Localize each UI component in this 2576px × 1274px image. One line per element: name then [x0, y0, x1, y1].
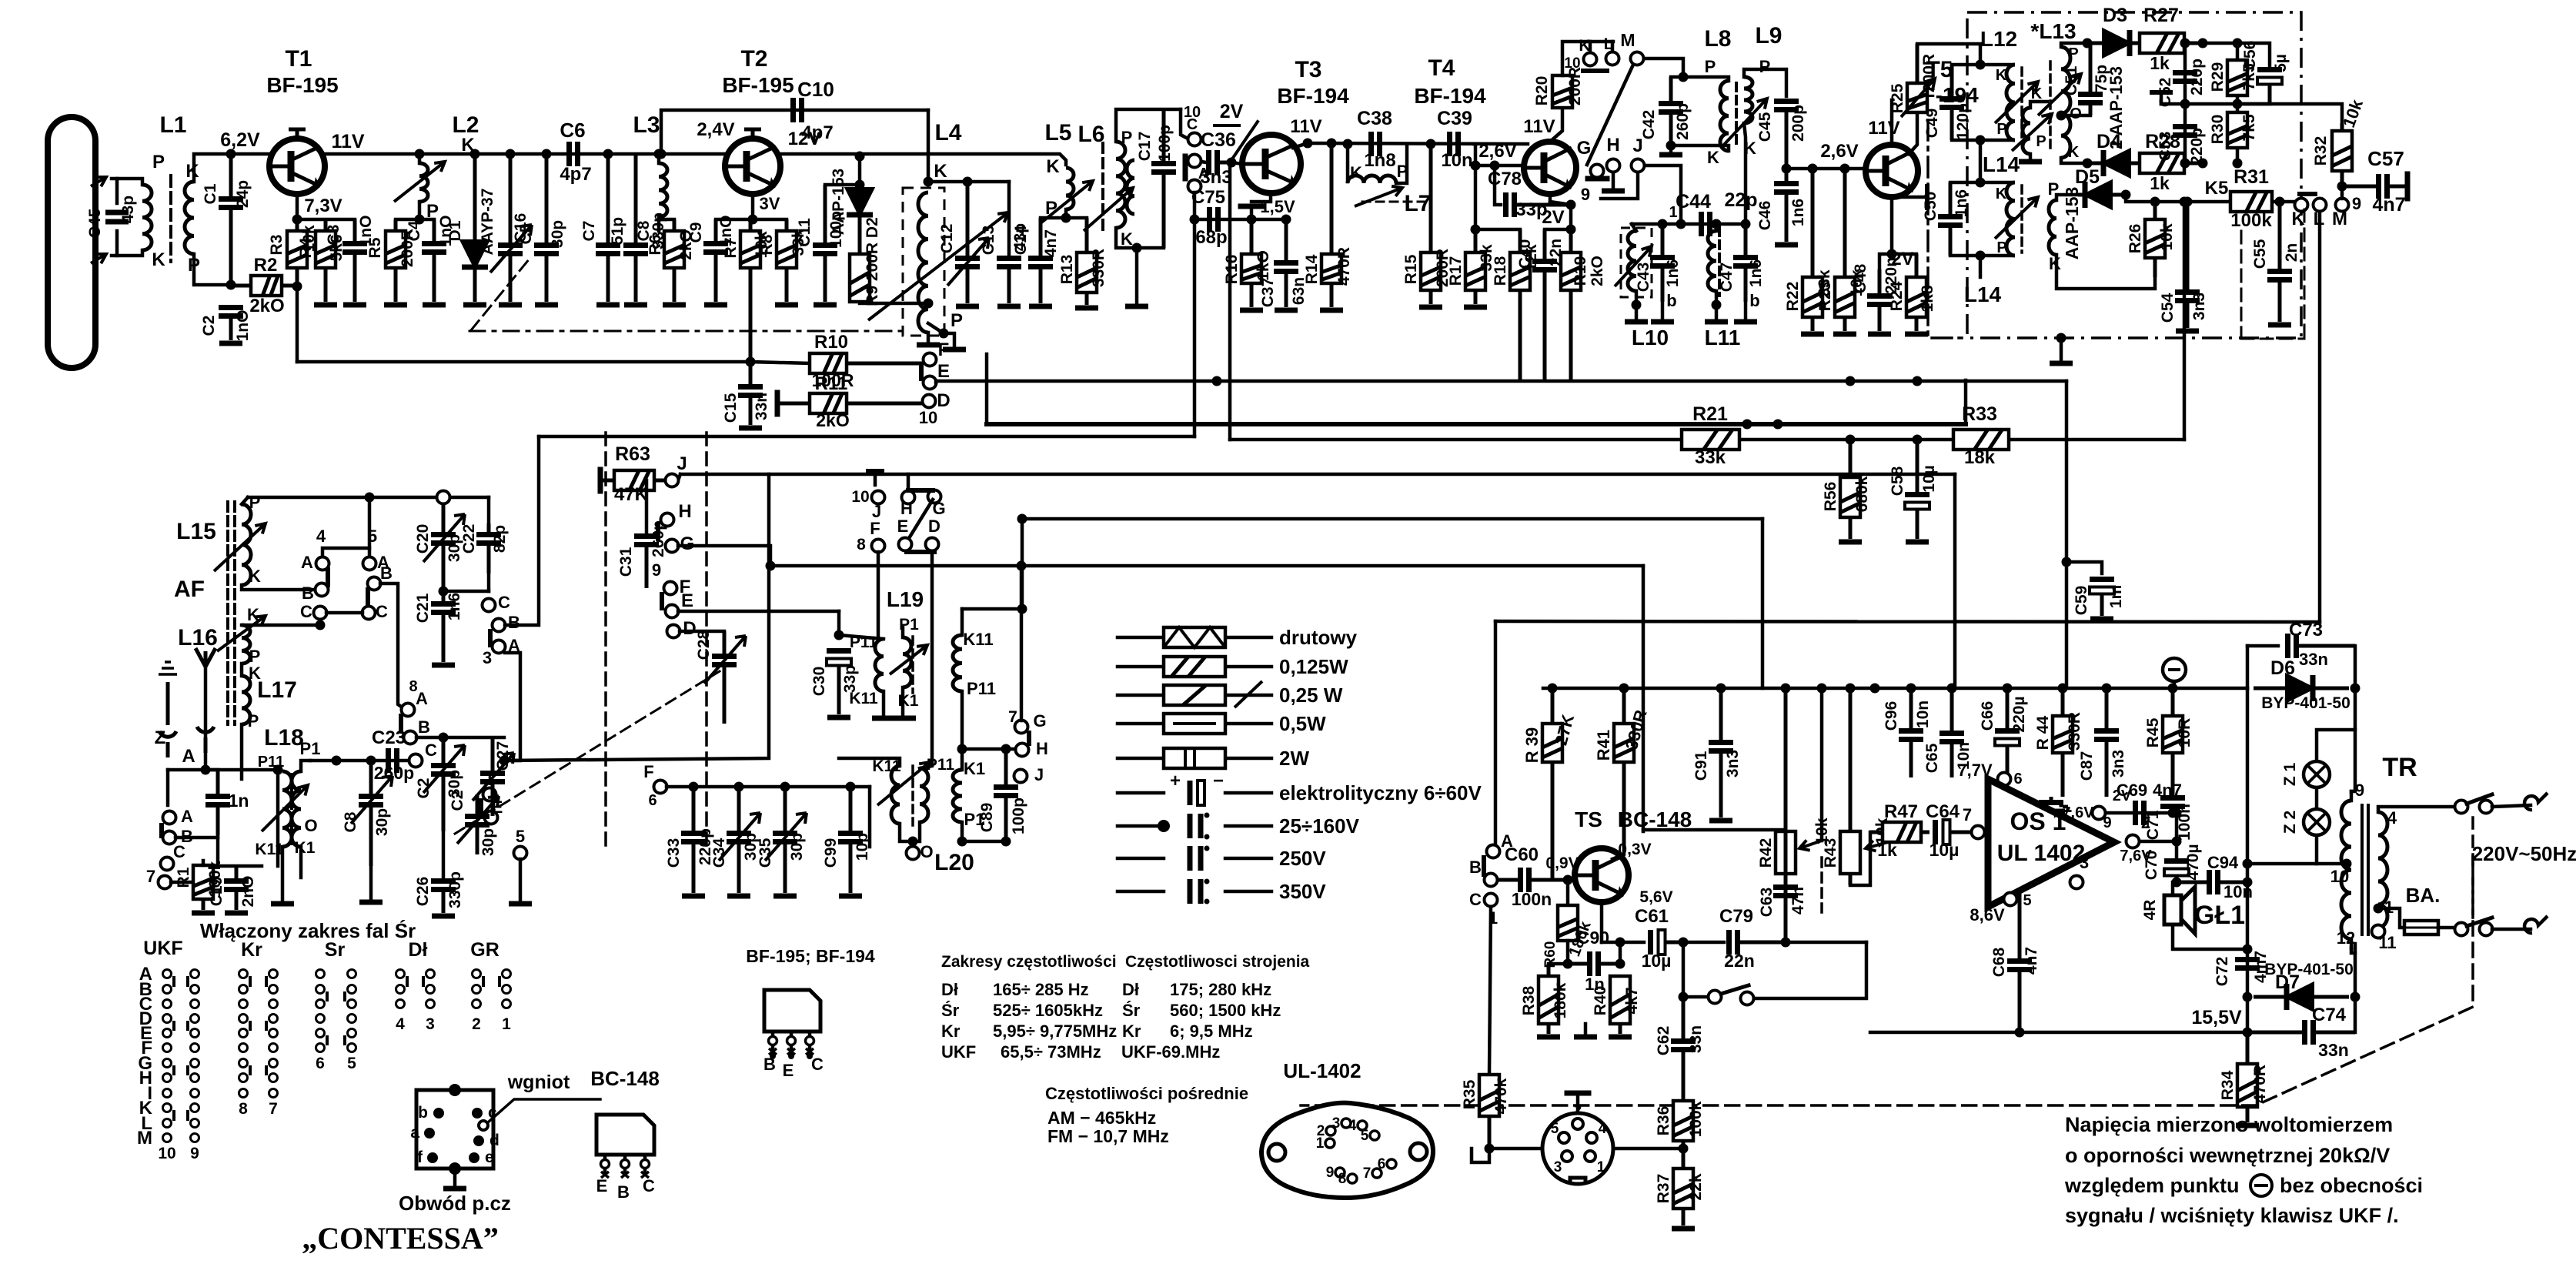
ground	[432, 663, 455, 668]
terminal C	[1188, 133, 1201, 146]
capacitor C75	[1207, 207, 1212, 232]
Sr switch link	[343, 991, 346, 1001]
ground	[739, 426, 762, 431]
svg-text:4p7: 4p7	[560, 164, 591, 185]
L7 dashed	[1362, 201, 1424, 203]
wire J jog	[678, 474, 680, 480]
inductor L19 primary	[875, 639, 884, 691]
svg-text:10n: 10n	[1914, 701, 1932, 728]
junction D5 out	[2121, 190, 2131, 200]
wire C51 to O	[2061, 114, 2090, 118]
wire L18 left	[276, 770, 280, 866]
wire C24-C26	[442, 831, 446, 878]
wire B to C36	[1201, 162, 1206, 162]
ground	[463, 303, 486, 308]
svg-text:3V: 3V	[760, 194, 780, 213]
wire L19 left gnd lead	[882, 691, 886, 714]
svg-text:5,95÷ 9,775MHz: 5,95÷ 9,775MHz	[993, 1022, 1117, 1041]
capacitor C38	[1368, 132, 1374, 156]
svg-text:C33: C33	[665, 838, 683, 868]
E bar top	[919, 366, 924, 379]
antenna coupling arrow P	[91, 177, 106, 186]
svg-text:R63: R63	[615, 443, 650, 465]
svg-text:220µ: 220µ	[2010, 696, 2028, 732]
resistor R7	[749, 219, 753, 231]
wire tank link	[1979, 140, 1983, 182]
wire B3 cross line	[539, 435, 1194, 439]
svg-text:250V: 250V	[1279, 847, 1326, 870]
wire L11 bottom	[1715, 291, 1719, 305]
wire P node	[1041, 216, 1087, 220]
terminal E mid2	[485, 811, 498, 824]
switch arm G-E	[907, 500, 933, 542]
svg-text:C2: C2	[200, 316, 218, 336]
junction D2/C11	[855, 180, 865, 190]
wire AGC down from T3	[1228, 166, 1232, 440]
junction R17	[1471, 225, 1481, 235]
junction R56	[1846, 435, 1856, 445]
wire speaker bottom	[2173, 925, 2247, 949]
junction C44 right	[1741, 219, 1751, 229]
BF leg	[808, 1032, 812, 1056]
svg-text:2kO: 2kO	[1589, 256, 1606, 286]
svg-text:1k: 1k	[2150, 173, 2170, 193]
wire C10 to L4	[927, 110, 931, 182]
Dl switch contact R2	[426, 1000, 435, 1008]
Dl switch contact R0	[426, 970, 435, 978]
svg-text:C: C	[643, 1176, 655, 1195]
resistor R20	[1552, 75, 1572, 108]
junction C89 top	[1001, 744, 1011, 754]
svg-text:C30: C30	[810, 667, 828, 697]
wire L8 K down	[1671, 145, 1729, 151]
junction L13 O tap	[2056, 111, 2066, 121]
capacitor C11	[824, 185, 827, 246]
diode D3	[2087, 42, 2103, 45]
svg-text:1n8: 1n8	[1364, 150, 1395, 171]
wire mid lead	[961, 691, 964, 770]
junction L4 tap	[924, 299, 934, 309]
svg-text:UL-1402: UL-1402	[1283, 1059, 1361, 1082]
Sr switch contact L5	[316, 1044, 325, 1052]
ground	[1801, 332, 1824, 337]
wire L15 top lead	[242, 497, 248, 504]
svg-text:1n6: 1n6	[1789, 199, 1807, 226]
resistor R40	[1619, 1024, 1622, 1034]
ground	[814, 303, 837, 308]
svg-text:P: P	[2036, 133, 2046, 150]
wire B down	[216, 838, 220, 866]
wire C-C link	[326, 611, 363, 615]
Kr switch contact R0	[269, 970, 278, 978]
resistor R27	[2184, 42, 2203, 45]
Sr switch link	[343, 1035, 346, 1045]
Dl switch contact R1	[426, 985, 435, 994]
UKF switch contact L3	[163, 1015, 172, 1023]
svg-text:4k7: 4k7	[1623, 987, 1641, 1014]
inductor L13 coupling	[2023, 108, 2030, 154]
svg-text:BC-148: BC-148	[1618, 808, 1692, 831]
junction L11	[1712, 219, 1722, 229]
wire T6 emitter down	[1600, 902, 1604, 942]
terminal B	[1188, 155, 1201, 168]
wire B3 up right	[505, 436, 539, 625]
legend lead r	[1225, 694, 1271, 697]
terminal H mid	[661, 513, 674, 527]
transistor T5	[1866, 145, 1918, 197]
capacitor C23	[386, 748, 391, 773]
L20 core	[911, 766, 914, 825]
svg-text:525÷ 1605kHz: 525÷ 1605kHz	[993, 1001, 1103, 1020]
wire C43 gnd	[1661, 302, 1665, 319]
UL-1402 pin 8	[1348, 1174, 1357, 1183]
terminal D top	[923, 395, 936, 408]
ground	[2268, 323, 2291, 328]
resistor R3	[296, 219, 299, 231]
terminal G 7	[1015, 721, 1028, 734]
wire pin2 out	[2140, 840, 2177, 844]
svg-text:C34: C34	[710, 838, 728, 868]
wire right column	[2246, 688, 2250, 1032]
wire L6 top	[1116, 109, 1181, 142]
UKF switch contact L9	[163, 1104, 172, 1112]
terminal F top	[924, 353, 937, 366]
svg-text:H: H	[1606, 135, 1619, 155]
terminal pin2	[2127, 835, 2140, 848]
junction 2V node	[1566, 225, 1576, 235]
wire O stub	[911, 841, 915, 847]
svg-text:F: F	[870, 519, 880, 538]
A-B link bar	[326, 570, 330, 585]
junction bus a	[1742, 420, 1752, 430]
svg-text:3: 3	[426, 1015, 435, 1033]
wire to L1 primary bottom	[117, 250, 142, 256]
terminal O	[907, 847, 920, 860]
svg-text:J: J	[677, 453, 687, 474]
svg-text:7k5: 7k5	[2240, 114, 2258, 141]
svg-text:33k: 33k	[1695, 447, 1726, 468]
ground	[1574, 1035, 1597, 1040]
svg-text:100k: 100k	[1687, 1101, 1705, 1137]
svg-text:1n6: 1n6	[446, 593, 463, 620]
L6 adjust arrow	[1084, 188, 1133, 231]
resistor R10	[847, 362, 923, 366]
svg-text:C43: C43	[1635, 262, 1652, 293]
resistor R60 180k	[1558, 905, 1578, 941]
junction C75 left	[1190, 215, 1200, 225]
L18 core	[290, 774, 293, 844]
svg-text:4n7: 4n7	[2372, 194, 2405, 216]
svg-text:C73: C73	[2289, 620, 2323, 640]
ground	[917, 343, 940, 348]
svg-text:P: P	[1397, 162, 1408, 181]
junction T5 emitter	[1887, 249, 1897, 259]
switch mains a	[2455, 923, 2468, 936]
terminal G	[1591, 165, 1604, 178]
svg-text:C72: C72	[2213, 957, 2231, 987]
ground	[1609, 1035, 1632, 1040]
ground	[1868, 332, 1891, 337]
wire speaker top lead	[2171, 882, 2175, 895]
svg-text:M: M	[1620, 30, 1635, 50]
svg-text:D: D	[928, 517, 941, 536]
svg-text:4: 4	[1348, 1118, 1357, 1134]
svg-text:10µ: 10µ	[1920, 465, 1938, 492]
ground	[2050, 361, 2073, 366]
ground	[682, 894, 705, 899]
junction D1 rail	[470, 149, 480, 159]
svg-text:Włączony zakres fal Śr: Włączony zakres fal Śr	[200, 919, 416, 942]
inductor L4	[918, 192, 928, 333]
wire C81 gnd lead	[369, 866, 373, 899]
terminal L	[1606, 52, 1619, 65]
svg-text:T1: T1	[285, 46, 312, 72]
capacitor C87	[2105, 688, 2109, 731]
ground	[1833, 332, 1856, 337]
capacitor C50	[1949, 182, 1953, 217]
Kr switch contact R8	[269, 1089, 278, 1098]
F-E bar2	[479, 801, 483, 814]
legend 350V symbol	[1190, 879, 1201, 904]
dashed C55 box h	[2241, 338, 2304, 340]
svg-text:AF: AF	[174, 577, 205, 602]
junction C58 top	[1913, 376, 1923, 386]
svg-text:260p: 260p	[1674, 103, 1692, 140]
legend lead l	[1118, 824, 1164, 828]
legend lead r	[1225, 636, 1271, 640]
svg-text:10R: 10R	[2176, 718, 2193, 748]
inductor L6 primary	[1116, 142, 1125, 228]
junction L11 gnd	[1712, 300, 1722, 310]
wire base col down	[1474, 166, 1478, 229]
svg-text:R31: R31	[2234, 166, 2269, 188]
junction bus b	[1773, 420, 1783, 430]
svg-text:BYP-401-50: BYP-401-50	[2264, 961, 2354, 978]
svg-text:12V: 12V	[788, 129, 821, 149]
svg-text:22p: 22p	[1724, 189, 1757, 211]
junction H-line	[1017, 561, 1027, 571]
ground	[1705, 319, 1728, 325]
UL-1402 pin 9	[1335, 1168, 1345, 1177]
svg-text:drutowy: drutowy	[1279, 626, 1358, 649]
2V underline	[1214, 124, 1239, 127]
wire 4-5 link	[322, 548, 369, 557]
svg-text:0,125W: 0,125W	[1279, 655, 1348, 678]
junction C63	[1781, 938, 1791, 948]
wire coupling bottom	[2029, 154, 2033, 159]
svg-text:11V: 11V	[1868, 118, 1899, 139]
svg-text:220p: 220p	[2188, 59, 2206, 95]
wire T4 emitter to node	[1550, 202, 1571, 205]
svg-text:3n3: 3n3	[2190, 293, 2208, 320]
wire L15 K line	[242, 585, 314, 590]
lamp Z2	[2304, 809, 2330, 835]
ground	[499, 303, 522, 308]
wire L2 bottom	[418, 202, 422, 219]
ground	[359, 900, 383, 905]
junction amp rail	[1947, 684, 1957, 694]
svg-text:C47: C47	[1718, 262, 1736, 293]
svg-text:47n: 47n	[1789, 887, 1807, 915]
ground	[1275, 308, 1298, 313]
capacitor C45	[1785, 110, 1789, 169]
inductor L17	[242, 676, 250, 724]
svg-text:C: C	[1187, 116, 1198, 133]
svg-text:C15: C15	[722, 393, 740, 423]
svg-text:Obwód p.cz: Obwód p.cz	[399, 1192, 511, 1215]
pin a	[424, 1128, 435, 1139]
wire C39 to T4 base	[1474, 144, 1522, 166]
capacitor C47	[1744, 224, 1748, 258]
junction DIN right	[1679, 1144, 1689, 1154]
switch mains d	[2480, 801, 2493, 814]
junction C35	[780, 782, 790, 792]
T5 emitter bar	[1925, 186, 1929, 208]
svg-text:C89: C89	[978, 803, 996, 833]
wire M switch diagonal	[1587, 65, 1633, 165]
svg-text:8: 8	[239, 1100, 248, 1118]
svg-text:C22: C22	[460, 524, 478, 554]
junction H row left	[957, 744, 967, 754]
UKF switch contact R3	[191, 1015, 199, 1023]
inductor L12	[2006, 65, 2015, 140]
svg-text:BYP-401-50: BYP-401-50	[2261, 694, 2350, 712]
G bar	[1588, 176, 1607, 182]
svg-text:L20: L20	[934, 850, 974, 875]
wire B8 right	[416, 736, 443, 740]
wire AF feedback line	[1495, 621, 2320, 622]
capacitor C66	[2006, 688, 2010, 731]
svg-text:K: K	[1350, 163, 1362, 182]
junction amp rail	[1781, 684, 1791, 694]
ground	[624, 303, 647, 308]
wire C62 col top	[1682, 942, 1686, 997]
junction R40	[1615, 959, 1625, 969]
svg-text:R35: R35	[1461, 1079, 1478, 1109]
Sr switch contact L3	[316, 1015, 325, 1023]
ground	[997, 304, 1021, 309]
switch arm a	[2467, 918, 2492, 926]
wire P to D5	[2056, 195, 2078, 200]
wire L19 right gnd lead	[901, 687, 905, 714]
svg-text:10: 10	[158, 1145, 175, 1162]
svg-text:BF-194: BF-194	[1414, 84, 1486, 108]
ground	[1602, 189, 1625, 194]
svg-text:22k: 22k	[1687, 1173, 1705, 1200]
capacitor C89	[1004, 749, 1008, 787]
wire J line down	[1953, 474, 1957, 688]
junction 5	[365, 493, 375, 503]
wire C21-C22 link	[443, 590, 489, 594]
svg-text:K1: K1	[295, 839, 316, 857]
svg-text:C11: C11	[796, 218, 814, 247]
wire tap4 to switch	[2378, 807, 2461, 812]
svg-text:UKF: UKF	[143, 938, 182, 959]
switch arm c	[2467, 794, 2492, 804]
svg-text:6: 6	[2013, 771, 2022, 787]
wire L7 left	[1346, 144, 1350, 182]
TR core b	[2367, 805, 2370, 935]
inductor L20 primary	[891, 766, 900, 824]
wire H line	[770, 564, 1643, 568]
junction box gnd	[2056, 333, 2066, 343]
ground	[943, 347, 966, 353]
wire to L1 primary	[117, 179, 142, 185]
svg-text:C60: C60	[1505, 844, 1539, 865]
junction C16 rail	[506, 149, 516, 159]
svg-text:3: 3	[1554, 1159, 1562, 1175]
wire K11 top	[962, 607, 1022, 611]
svg-text:L8: L8	[1704, 26, 1731, 52]
svg-text:FM − 10,7 MHz: FM − 10,7 MHz	[1047, 1126, 1169, 1146]
capacitor C16	[509, 154, 513, 246]
legend lead l	[1118, 636, 1164, 640]
svg-text:f: f	[417, 1149, 423, 1166]
svg-text:68p: 68p	[1195, 227, 1227, 248]
terminal E sw	[899, 538, 912, 551]
capacitor C49	[1950, 65, 1954, 99]
svg-text:R25: R25	[1889, 83, 1906, 113]
junction C94 right	[2243, 878, 2253, 888]
svg-text:3n3: 3n3	[1200, 167, 1231, 188]
capacitor C56	[2268, 79, 2272, 105]
junction C53 bottom	[2180, 159, 2190, 169]
junction L5 P	[1061, 213, 1071, 223]
svg-text:C94: C94	[2207, 853, 2239, 872]
transformer TR secondary	[2378, 812, 2387, 928]
svg-text:C61: C61	[1635, 906, 1669, 927]
svg-text:C39: C39	[1437, 108, 1472, 129]
capacitor C68	[2018, 893, 2022, 961]
terminal C right	[363, 607, 376, 620]
svg-text:33p: 33p	[841, 665, 859, 693]
Kr switch contact R6	[269, 1059, 278, 1068]
junction C down	[316, 620, 326, 630]
UKF switch contact R6	[191, 1059, 199, 1068]
svg-text:O: O	[304, 816, 317, 835]
wire C to R35	[1489, 907, 1491, 1075]
wire C63 top	[1643, 828, 1786, 832]
junction C69 out	[2172, 808, 2182, 818]
terminal J R63	[666, 474, 679, 487]
wire T5 base line	[1786, 167, 1866, 171]
resistor R28	[2184, 162, 2203, 166]
junction R27 out	[2198, 38, 2208, 48]
svg-text:51p: 51p	[609, 217, 626, 245]
wire 5 down	[519, 859, 523, 901]
resistor R1	[202, 899, 205, 910]
svg-text:30p: 30p	[788, 833, 806, 861]
ground	[1734, 319, 1757, 325]
ground	[219, 341, 242, 346]
svg-text:AAP-153: AAP-153	[2062, 187, 2082, 260]
capacitor C52	[2173, 70, 2197, 75]
terminal A in	[1487, 845, 1500, 858]
svg-text:R41: R41	[1594, 730, 1613, 761]
junction L2 P node	[415, 215, 425, 225]
ground	[1659, 152, 1682, 158]
UKF switch contact R9	[191, 1104, 199, 1112]
BC-148 leg	[623, 1155, 627, 1176]
svg-text:3n3: 3n3	[1724, 750, 1742, 777]
svg-text:K: K	[1046, 156, 1060, 177]
capacitor C5	[545, 154, 549, 246]
svg-text:5: 5	[347, 1055, 356, 1072]
wire L6 bottom	[1116, 228, 1164, 248]
wire L3 bottom	[657, 217, 661, 231]
transistor T1	[269, 139, 325, 194]
svg-text:R7: R7	[722, 238, 740, 259]
